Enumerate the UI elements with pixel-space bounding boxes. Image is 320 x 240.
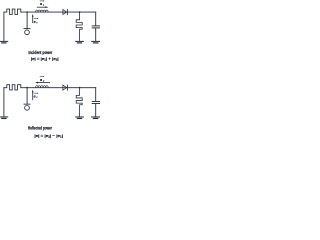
svg-text:a: a — [40, 2, 42, 6]
capacitor C2 plates — [92, 100, 100, 102]
svg-text:a: a — [40, 78, 42, 82]
label a1 circuit 1 — [40, 0, 45, 7]
arrow a1 incident wave rightward — [37, 6, 45, 8]
ground under load resistor circuit 2 — [76, 116, 84, 118]
wire left vertical circuit 1 — [3, 12, 5, 41]
svg-text:v: v — [36, 96, 38, 99]
label e_v circuit 1 — [34, 18, 39, 25]
label e_v circuit 2 — [34, 92, 39, 99]
wire source branch vertical circuit 1 — [26, 12, 28, 28]
diode D2 — [63, 85, 67, 90]
generator G1 terminal bar — [24, 28, 30, 30]
diode D1 — [63, 10, 67, 15]
ground left circuit 1 — [0, 40, 8, 42]
wire main horizontal circuit 1 — [21, 11, 96, 13]
svg-text:1: 1 — [43, 3, 45, 7]
resistor R2a source-impedance meander — [4, 85, 21, 90]
generator G1 circle — [25, 30, 30, 35]
ground under load resistor circuit 1 — [76, 40, 84, 42]
resistor R1a source-impedance meander — [4, 9, 21, 14]
arrow voltage e up circuit 2 — [32, 92, 34, 100]
svg-text:|e| = |e2| − |e1|: |e| = |e2| − |e1| — [34, 133, 63, 139]
svg-text:v: v — [36, 21, 38, 24]
arrow voltage e up circuit 1 — [32, 16, 34, 23]
label a2 circuit 2 — [40, 76, 45, 83]
inductor L1 coupling arcs — [36, 10, 49, 12]
svg-text:Reflected power: Reflected power — [28, 125, 52, 130]
capacitor C1 top lead — [95, 12, 97, 25]
wire left vertical circuit 2 — [3, 88, 5, 117]
arrow a2 reflected wave leftward — [38, 82, 50, 84]
capacitor C1 plates — [92, 25, 100, 27]
svg-text:Incident power: Incident power — [28, 50, 52, 55]
wire main horizontal circuit 2 — [21, 87, 96, 89]
capacitor C2 top lead — [95, 88, 97, 101]
generator G2 circle — [25, 106, 30, 111]
ground left circuit 2 — [0, 116, 8, 118]
wire source branch vertical circuit 2 — [26, 88, 28, 104]
ground under capacitor circuit 2 — [92, 116, 100, 118]
junction node dot source branch circuit 2 — [26, 87, 28, 89]
svg-text:|e| = |e1| + |e2|: |e| = |e1| + |e2| — [31, 56, 59, 62]
resistor R2b vertical meander load — [76, 88, 82, 117]
resistor R1b vertical meander load — [76, 12, 82, 41]
junction node dot load branch circuit 1 — [79, 11, 81, 13]
ground under capacitor circuit 1 — [92, 40, 100, 42]
inductor L2 coupling arcs — [36, 86, 49, 88]
generator G2 terminal bar — [24, 103, 30, 105]
junction node dot load branch circuit 2 — [79, 87, 81, 89]
junction node dot source branch circuit 1 — [26, 11, 28, 13]
